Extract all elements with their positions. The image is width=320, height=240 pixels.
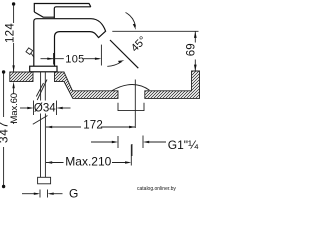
svg-text:Max.210: Max.210	[65, 154, 111, 168]
svg-text:G1"¼: G1"¼	[168, 138, 199, 152]
svg-text:Ø34: Ø34	[34, 103, 56, 115]
svg-text:347: 347	[0, 121, 10, 143]
svg-text:69: 69	[186, 43, 198, 56]
svg-text:G: G	[69, 186, 78, 200]
svg-text:105: 105	[65, 54, 84, 66]
svg-text:catalog.onliner.by: catalog.onliner.by	[137, 186, 176, 192]
svg-text:124: 124	[4, 23, 16, 43]
svg-text:Max.60: Max.60	[9, 93, 20, 124]
svg-text:172: 172	[83, 119, 103, 131]
